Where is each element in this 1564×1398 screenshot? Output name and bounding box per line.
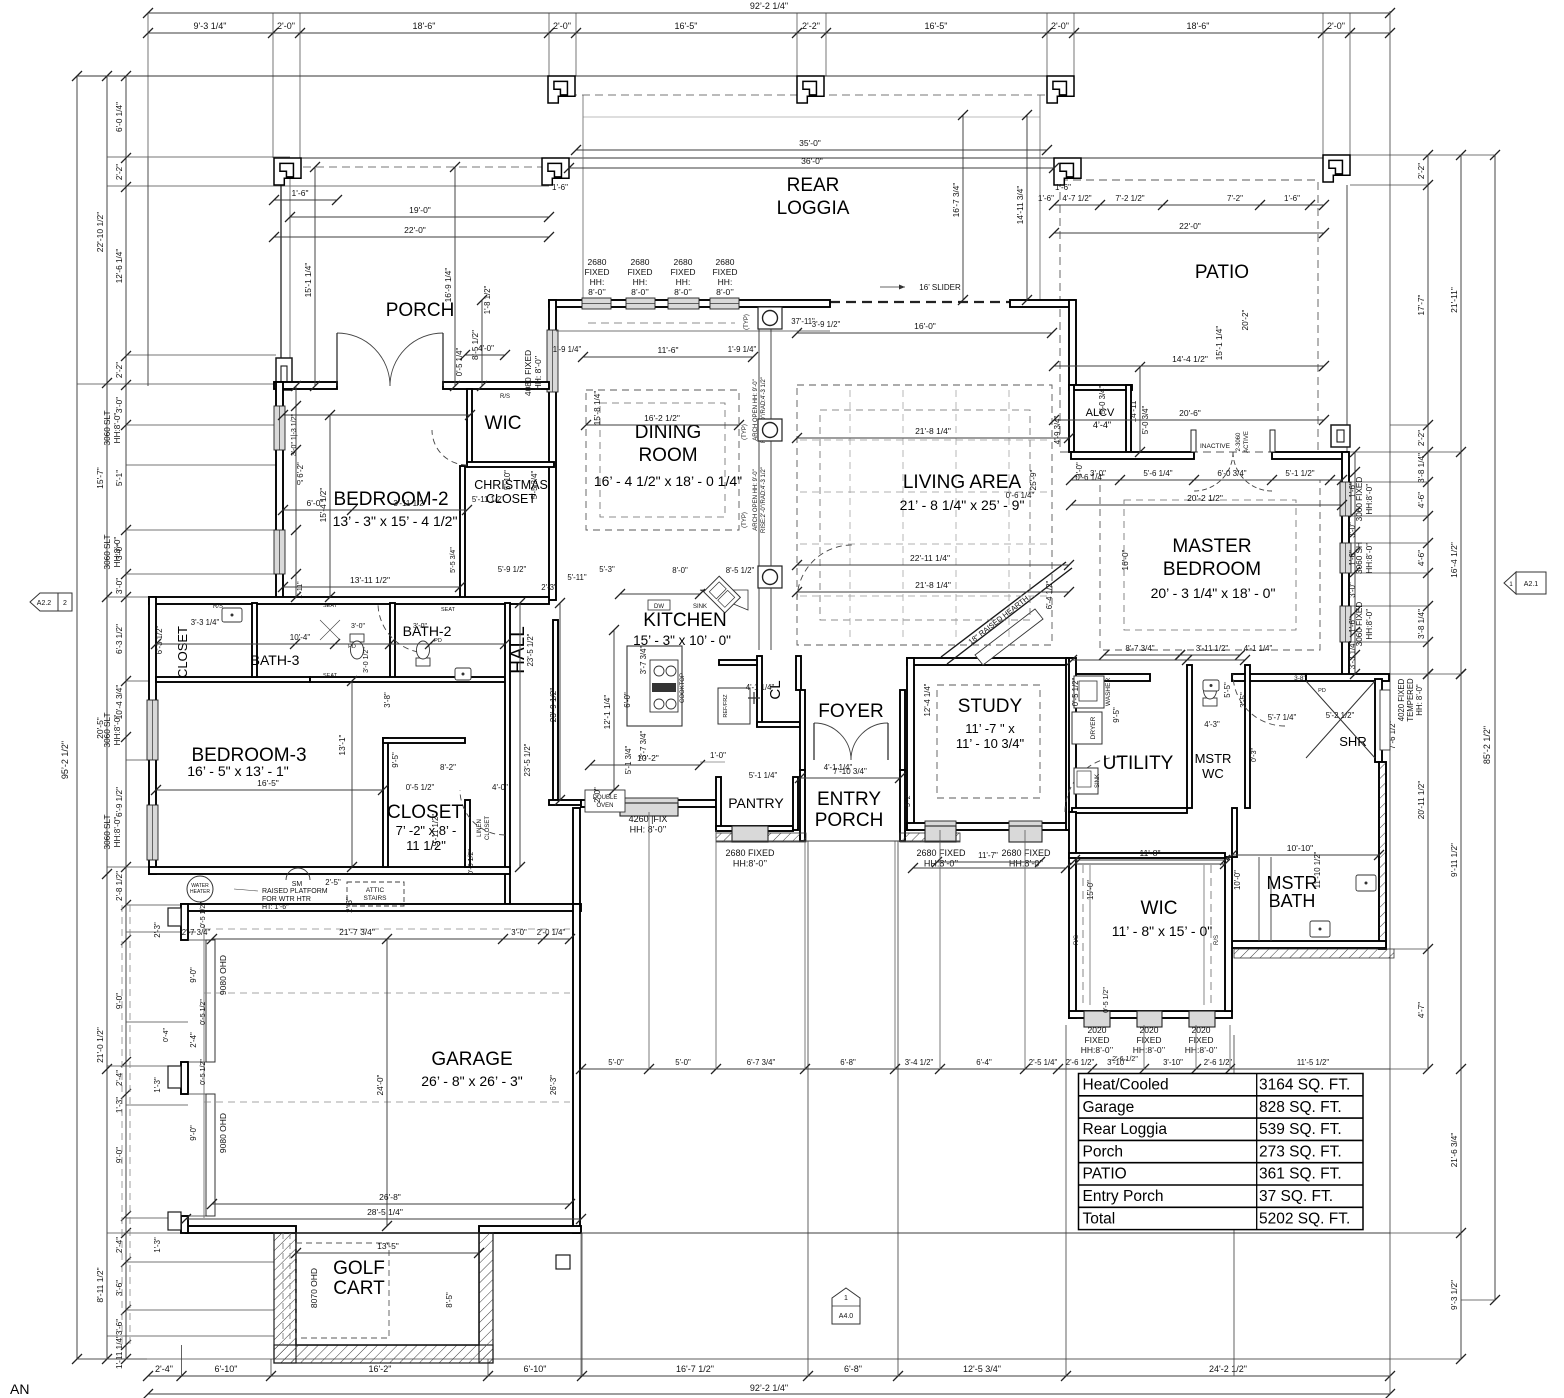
svg-text:16'-5": 16'-5" [257,778,279,788]
svg-text:HH:8’-0’’: HH:8’-0’’ [733,859,767,869]
svg-text:PD: PD [348,644,356,650]
svg-text:HH:8’-0’’: HH:8’-0’’ [1133,1045,1166,1055]
svg-text:WIC: WIC [1141,898,1178,919]
svg-text:5'-1 1/2": 5'-1 1/2" [1285,469,1314,478]
svg-text:2'-0": 2'-0" [1051,21,1069,31]
svg-text:SEAT: SEAT [323,603,338,609]
svg-text:21'-8 1/4": 21'-8 1/4" [915,426,951,436]
svg-text:4020 FIXED: 4020 FIXED [1397,678,1406,721]
svg-text:26'-3": 26'-3" [549,1075,558,1095]
svg-text:20’ - 3 1/4" x 18’ - 0": 20’ - 3 1/4" x 18’ - 0" [1151,585,1276,601]
svg-text:BATH: BATH [1269,891,1316,911]
svg-text:2'-0": 2'-0" [277,21,295,31]
svg-text:HH: 8’-0": HH: 8’-0" [1415,684,1424,716]
svg-text:23'-5 1/2": 23'-5 1/2" [523,743,532,776]
svg-text:2'-8 1/2": 2'-8 1/2" [115,871,124,901]
svg-text:7’ -2" x 8’ -: 7’ -2" x 8’ - [396,823,457,838]
svg-text:2'-3": 2'-3" [345,897,354,913]
svg-text:8’-0’’: 8’-0’’ [588,287,606,297]
svg-text:WASHER: WASHER [1105,678,1112,707]
svg-text:5'-0 3/4": 5'-0 3/4" [1141,406,1150,435]
svg-text:4'-7 1/2": 4'-7 1/2" [1062,194,1091,203]
svg-text:18'-6": 18'-6" [413,21,436,31]
svg-text:OVEN: OVEN [596,803,613,809]
svg-text:3'-8 1/4": 3'-8 1/4" [1417,453,1426,483]
svg-text:COOKTOP: COOKTOP [680,673,686,703]
svg-text:3'-0": 3'-0" [413,623,427,630]
svg-text:539 SQ. FT.: 539 SQ. FT. [1259,1121,1342,1138]
svg-text:15'-1 1/4": 15'-1 1/4" [304,263,313,298]
svg-text:1'-3": 1'-3" [115,1097,124,1113]
svg-text:RAISED PLATFORM: RAISED PLATFORM [262,888,328,895]
svg-text:2'-0": 2'-0" [553,21,571,31]
svg-text:1'-6": 1'-6" [552,183,568,192]
svg-text:CART: CART [333,1278,385,1299]
svg-text:17'-7": 17'-7" [1417,294,1426,315]
svg-text:2'-5 1/4": 2'-5 1/4" [1029,1058,1058,1067]
svg-text:9'-11 1/2": 9'-11 1/2" [1450,843,1459,877]
svg-text:3'-8 1/4": 3'-8 1/4" [1417,609,1426,639]
svg-text:3'-0 1/2": 3'-0 1/2" [363,647,370,673]
svg-text:9'-3 1/2": 9'-3 1/2" [1450,1280,1459,1310]
svg-text:MSTR: MSTR [1267,873,1318,893]
svg-text:LINEN: LINEN [477,819,483,837]
svg-text:PANTRY: PANTRY [728,795,784,811]
svg-text:0'-5 1/2": 0'-5 1/2" [200,999,207,1025]
svg-text:3'-3 1/4": 3'-3 1/4" [191,618,220,627]
svg-text:6'-0": 6'-0" [623,692,632,708]
svg-text:2'-7 3/4": 2'-7 3/4" [182,928,211,937]
svg-text:CLOSET: CLOSET [387,802,463,823]
svg-text:5'-5 3/4": 5'-5 3/4" [530,471,539,500]
svg-text:2'-4": 2'-4" [115,1070,124,1086]
svg-text:92’-2 1/4": 92’-2 1/4" [750,1383,788,1393]
svg-text:16’ - 5" x 13’ - 1": 16’ - 5" x 13’ - 1" [187,763,289,779]
svg-text:FIXED: FIXED [584,267,609,277]
svg-text:5'-10": 5'-10" [503,470,512,490]
svg-text:1'-6": 1'-6" [292,188,309,198]
svg-text:13'-5": 13'-5" [377,1241,399,1251]
svg-text:361 SQ. FT.: 361 SQ. FT. [1259,1166,1342,1183]
svg-text:2'-0": 2'-0" [593,787,602,803]
svg-text:0": 0" [297,480,304,487]
svg-text:2020: 2020 [1140,1025,1159,1035]
svg-text:A2.2: A2.2 [37,600,52,607]
svg-text:3164 SQ. FT.: 3164 SQ. FT. [1259,1077,1350,1094]
svg-text:ATTIC: ATTIC [366,887,385,894]
svg-text:2'-2": 2'-2" [115,362,124,378]
svg-text:BEDROOM-2: BEDROOM-2 [333,489,448,510]
svg-text:PATIO: PATIO [1195,262,1249,283]
svg-text:1'-3": 1'-3" [153,1077,162,1093]
svg-text:HEATER: HEATER [190,889,210,895]
svg-text:10'-0": 10'-0" [1233,870,1242,890]
svg-text:HH:: HH: [633,277,648,287]
svg-text:10'-10": 10'-10" [1287,843,1313,853]
svg-text:13'-1": 13'-1" [338,734,347,755]
svg-text:3060 SLT: 3060 SLT [103,535,112,570]
svg-text:(TYP): (TYP) [742,512,748,528]
svg-text:HH:8’-0’’: HH:8’-0’’ [1185,1045,1218,1055]
svg-text:HH:8’-0": HH:8’-0" [113,817,122,848]
svg-text:FIXED: FIXED [1188,1035,1213,1045]
svg-text:5'-1": 5'-1" [115,470,124,486]
svg-text:0'-6 1/4": 0'-6 1/4" [1006,491,1035,500]
svg-text:REAR: REAR [787,175,840,196]
svg-text:HH: 8’-0’’: HH: 8’-0’’ [630,825,667,835]
svg-text:8'-5": 8'-5" [445,1292,454,1308]
svg-text:10'-4": 10'-4" [290,633,311,642]
svg-text:5'-3": 5'-3" [599,565,615,574]
svg-text:2: 2 [63,600,67,607]
svg-text:1'-8 1/2": 1'-8 1/2" [483,286,492,315]
svg-text:9'-0": 9'-0" [115,993,124,1009]
svg-text:4080 FIXED: 4080 FIXED [523,350,533,396]
svg-text:9'-5": 9'-5" [1112,707,1121,723]
svg-text:20'-2": 20'-2" [1241,309,1250,330]
svg-text:6'-3 1/2": 6'-3 1/2" [115,624,124,654]
svg-text:9'-0": 9'-0" [115,1147,124,1163]
svg-text:15'-1 1/4": 15'-1 1/4" [1215,326,1224,361]
svg-text:FIXED: FIXED [1136,1035,1161,1045]
svg-text:1'-11": 1'-11" [297,581,304,599]
svg-text:3'-9 1/2": 3'-9 1/2" [812,320,841,329]
svg-text:8’-0’’: 8’-0’’ [674,287,692,297]
svg-text:85’-2 1/2": 85’-2 1/2" [1482,726,1492,764]
svg-text:AN: AN [10,1381,29,1397]
svg-text:R/S: R/S [500,394,510,400]
svg-text:15'-0": 15'-0" [1086,880,1095,900]
svg-text:2680: 2680 [674,257,693,267]
svg-text:HH:8’-0’’: HH:8’-0’’ [1365,608,1374,639]
svg-text:3'-0": 3'-0" [115,578,124,594]
svg-text:2680: 2680 [588,257,607,267]
svg-text:FIXED: FIXED [627,267,652,277]
svg-text:5'-6 1/4": 5'-6 1/4" [1143,469,1172,478]
svg-text:22'-10 1/2": 22'-10 1/2" [95,212,105,253]
svg-text:2680: 2680 [716,257,735,267]
svg-text:8'-11 1/2": 8'-11 1/2" [95,1267,105,1302]
svg-text:Garage: Garage [1083,1099,1135,1116]
svg-text:1'-6": 1'-6" [1348,617,1357,633]
svg-text:21'-7 3/4": 21'-7 3/4" [339,927,375,937]
svg-text:4'-3": 4'-3" [1204,720,1220,729]
svg-text:5'-2 1/2": 5'-2 1/2" [1326,711,1355,720]
svg-text:4’-4": 4’-4" [1093,420,1111,430]
svg-text:R/S: R/S [1214,935,1220,945]
svg-text:37 SQ. FT.: 37 SQ. FT. [1259,1188,1333,1205]
svg-text:25'-9": 25'-9" [1029,469,1038,490]
svg-text:21'-11": 21'-11" [1449,287,1459,313]
svg-text:Total: Total [1083,1210,1116,1227]
svg-text:8070 OHD: 8070 OHD [309,1268,319,1308]
svg-text:12'-4 1/4": 12'-4 1/4" [923,683,932,716]
svg-text:2'-0": 2'-0" [1327,21,1345,31]
svg-text:12'-1 1/4": 12'-1 1/4" [603,695,612,730]
svg-text:5'-11 1/2": 5'-11 1/2" [472,495,505,504]
svg-text:37'-11": 37'-11" [791,317,815,326]
svg-text:4'-0": 4'-0" [478,344,494,353]
svg-text:4'-6": 4'-6" [1417,550,1426,566]
svg-text:24'-2 1/2": 24'-2 1/2" [1209,1364,1247,1374]
svg-text:3'-6": 3'-6" [115,1319,124,1335]
svg-text:16’ - 4 1/2" x 18’ - 0 1/4": 16’ - 4 1/2" x 18’ - 0 1/4" [594,473,742,489]
svg-text:28'-5 1/4": 28'-5 1/4" [367,1207,403,1217]
svg-text:2'-3": 2'-3" [153,922,162,938]
svg-text:11'-8": 11'-8" [1139,848,1160,858]
svg-text:LIVING AREA: LIVING AREA [903,472,1022,493]
svg-text:15'-4 1/2": 15'-4 1/2" [319,488,328,523]
svg-text:15'-8 1/4": 15'-8 1/4" [593,391,602,426]
svg-text:0'-5 1/2": 0'-5 1/2" [406,783,435,792]
svg-text:7'-2 1/2": 7'-2 1/2" [1115,194,1144,203]
svg-text:9080 OHD: 9080 OHD [218,955,228,995]
svg-text:6'-7 3/4": 6'-7 3/4" [747,1058,776,1067]
svg-text:21'-6 3/4": 21'-6 3/4" [1450,1133,1459,1168]
svg-text:BATH-2: BATH-2 [403,623,452,639]
svg-text:1: 1 [844,1295,848,1302]
svg-text:WC: WC [1202,766,1224,781]
svg-text:2'-4": 2'-4" [155,1364,173,1374]
svg-text:2'-4": 2'-4" [115,1237,124,1253]
svg-text:4'-1 1/4": 4'-1 1/4" [1244,644,1273,653]
svg-text:ARCH OPEN HH: 9’-0": ARCH OPEN HH: 9’-0" [753,469,759,530]
svg-text:95’-2 1/2": 95’-2 1/2" [60,741,70,779]
svg-text:16'-2": 16'-2" [369,1364,392,1374]
svg-text:5'-7 1/4": 5'-7 1/4" [1268,713,1297,722]
svg-text:A2.1: A2.1 [1524,581,1539,588]
svg-text:92’-2 1/4": 92’-2 1/4" [750,1,788,11]
svg-text:35'-0": 35'-0" [799,138,821,148]
svg-text:9'-5": 9'-5" [391,752,400,768]
svg-text:4'-9 3/4": 4'-9 3/4" [1053,416,1062,445]
svg-text:3'-10": 3'-10" [1107,1058,1127,1067]
svg-text:8’-0’’: 8’-0’’ [631,287,649,297]
svg-text:7'-2": 7'-2" [1227,194,1243,203]
svg-text:6'-4": 6'-4" [976,1058,992,1067]
svg-text:9'-11 1/2": 9'-11 1/2" [431,814,440,847]
svg-text:FIXED: FIXED [670,267,695,277]
svg-text:(TYP): (TYP) [742,424,748,440]
svg-text:8'-5 1/2": 8'-5 1/2" [726,566,755,575]
svg-text:5'-0 3/4": 5'-0 3/4" [1098,386,1107,415]
svg-text:HH:8’-0’’: HH:8’-0’’ [1081,1045,1114,1055]
svg-text:11'-6": 11'-6" [657,345,678,355]
svg-text:2'-6 1/2": 2'-6 1/2" [1204,1058,1233,1067]
svg-text:2020: 2020 [1088,1025,1107,1035]
svg-text:11 1/2": 11 1/2" [406,838,446,853]
svg-text:PORCH: PORCH [815,810,884,831]
svg-text:10'-4 3/4": 10'-4 3/4" [115,685,124,720]
svg-text:3'-5": 3'-5" [1239,692,1248,708]
svg-text:KITCHEN: KITCHEN [643,610,726,631]
svg-text:5'-11": 5'-11" [567,573,587,582]
svg-text:5'-5 3/4": 5'-5 3/4" [450,547,457,573]
svg-text:2680: 2680 [631,257,650,267]
svg-text:3-8": 3-8" [1294,675,1306,682]
svg-text:4'-0": 4'-0" [492,783,508,792]
svg-text:23'-5 1/2": 23'-5 1/2" [526,633,535,666]
svg-text:5'-2": 5'-2" [905,793,912,807]
svg-text:2680 FIXED: 2680 FIXED [916,848,966,858]
svg-text:Entry Porch: Entry Porch [1083,1188,1164,1205]
svg-text:6'-8": 6'-8" [844,1364,862,1374]
svg-text:R/S: R/S [213,604,223,610]
svg-text:3'-8": 3'-8" [383,692,392,708]
svg-text:1'-6": 1'-6" [1348,550,1357,566]
svg-text:0'-3": 0'-3" [1251,748,1258,762]
svg-text:11’ - 10 3/4": 11’ - 10 3/4" [956,736,1025,751]
svg-text:6'-2": 6'-2" [296,462,305,478]
svg-text:SEAT: SEAT [323,673,338,679]
svg-text:4'-1 1/4": 4'-1 1/4" [746,683,775,692]
svg-text:3'-4 1/2": 3'-4 1/2" [905,1058,934,1067]
svg-text:2'-2": 2'-2" [1417,163,1426,179]
svg-text:10'-2": 10'-2" [637,753,659,763]
svg-text:36'-0": 36'-0" [801,156,823,166]
svg-text:3'-11 1/2": 3'-11 1/2" [393,499,426,508]
svg-text:3'-0": 3'-0" [1075,462,1084,478]
svg-text:3060 SLT: 3060 SLT [103,713,112,748]
svg-text:3'-0": 3'-0" [1348,522,1357,538]
svg-text:2'-2": 2'-2" [115,164,124,180]
svg-text:24'-0": 24'-0" [376,1074,385,1095]
svg-text:16'-0": 16'-0" [1121,549,1130,570]
svg-text:26'-8": 26'-8" [379,1192,401,1202]
svg-text:BEDROOM: BEDROOM [1163,559,1261,580]
svg-text:ENTRY: ENTRY [817,789,881,810]
svg-text:HH:: HH: [590,277,605,287]
svg-text:26’ - 8" x 26’ - 3": 26’ - 8" x 26’ - 3" [421,1073,523,1089]
svg-text:7'-10 3/4": 7'-10 3/4" [833,767,867,776]
svg-text:4'-6": 4'-6" [1417,492,1426,508]
svg-text:GOLF: GOLF [333,1258,385,1279]
svg-text:CLOSET: CLOSET [485,816,491,840]
svg-text:3'-6": 3'-6" [115,1280,124,1296]
svg-text:UTILITY: UTILITY [1103,753,1174,774]
svg-text:14'-4 1/2": 14'-4 1/2" [1172,354,1208,364]
svg-text:6'-9 1/2": 6'-9 1/2" [115,787,124,817]
svg-text:SM: SM [292,881,303,888]
svg-text:5'-1 3/4": 5'-1 3/4" [624,746,633,775]
svg-text:2-3060: 2-3060 [1236,432,1242,451]
svg-text:6'-10": 6'-10" [524,1364,547,1374]
svg-text:HH: 8’-0’’: HH: 8’-0’’ [533,355,543,390]
svg-text:8'-7 3/4": 8'-7 3/4" [1125,644,1154,653]
svg-text:FIXED: FIXED [1084,1035,1109,1045]
svg-text:INACTIVE: INACTIVE [1200,443,1231,450]
svg-text:3'-10": 3'-10" [1163,1058,1183,1067]
svg-text:18'-6": 18'-6" [1187,21,1210,31]
svg-text:STAIRS: STAIRS [364,895,388,902]
svg-text:3060 SLT: 3060 SLT [103,815,112,850]
svg-text:4260 |FIX: 4260 |FIX [629,814,668,824]
svg-text:1'-0": 1'-0" [710,751,726,760]
svg-text:6'-10": 6'-10" [215,1364,238,1374]
svg-text:MASTER: MASTER [1172,536,1251,557]
svg-text:3'-0": 3'-0" [115,397,124,413]
svg-text:1'-9 1/4": 1'-9 1/4" [728,345,757,354]
svg-text:SEAT: SEAT [441,607,456,613]
svg-text:FIXED: FIXED [712,267,737,277]
svg-text:3'-0": 3'-0" [511,928,527,937]
svg-text:3'-7 3/4": 3'-7 3/4" [639,646,648,675]
svg-text:1'-6": 1'-6" [1284,194,1300,203]
svg-text:16'-5": 16'-5" [925,21,948,31]
svg-text:11'-7": 11'-7" [978,851,998,860]
svg-text:3'-0": 3'-0" [1090,469,1106,478]
svg-text:REF/FRZ: REF/FRZ [723,694,729,718]
svg-text:BATH-3: BATH-3 [251,652,300,668]
svg-text:12'-6 1/4": 12'-6 1/4" [115,249,124,284]
svg-text:3'-0": 3'-0" [1348,582,1357,598]
svg-text:9'-3 1/4": 9'-3 1/4" [194,21,227,31]
svg-text:4'-7": 4'-7" [1417,1002,1426,1018]
svg-text:6'-0 3/4": 6'-0 3/4" [1217,469,1246,478]
svg-text:3'-11 1/2": 3'-11 1/2" [1196,644,1229,653]
svg-text:Rear Loggia: Rear Loggia [1083,1121,1168,1138]
svg-text:5202 SQ. FT.: 5202 SQ. FT. [1259,1210,1350,1227]
svg-text:6'-8": 6'-8" [840,1058,856,1067]
svg-text:3060 SLT: 3060 SLT [103,411,112,446]
svg-text:21'-0 1/2": 21'-0 1/2" [95,1027,105,1063]
svg-text:22'-0": 22'-0" [404,225,426,235]
svg-text:PATIO: PATIO [1083,1166,1127,1183]
svg-text:HT: 1’-6": HT: 1’-6" [262,904,289,911]
svg-text:2'-5": 2'-5" [325,878,341,887]
svg-text:8'-0": 8'-0" [672,566,688,575]
svg-text:9080 OHD: 9080 OHD [218,1113,228,1153]
svg-text:2'-4": 2'-4" [189,1032,198,1048]
svg-text:22'-11 1/4": 22'-11 1/4" [910,553,950,563]
svg-text:2'-6 1/2": 2'-6 1/2" [1066,1058,1095,1067]
svg-text:22'-0": 22'-0" [1179,221,1201,231]
svg-text:3'-0": 3'-0" [351,623,365,630]
svg-text:15'-7": 15'-7" [95,467,105,489]
svg-text:LOGGIA: LOGGIA [777,198,850,219]
svg-text:16'-0": 16'-0" [914,321,936,331]
svg-text:16'-7 1/2": 16'-7 1/2" [676,1364,714,1374]
svg-text:0'-5 1/2": 0'-5 1/2" [200,1059,207,1085]
svg-text:1'-6": 1'-6" [1038,194,1054,203]
svg-text:6'-4 1/2": 6'-4 1/2" [1045,581,1054,610]
svg-text:SINK: SINK [1095,774,1101,788]
svg-text:STUDY: STUDY [958,696,1023,717]
svg-text:PD: PD [1318,688,1326,694]
svg-text:CLOSET: CLOSET [175,626,190,678]
svg-text:1'-3": 1'-3" [153,1237,162,1253]
svg-text:A4.0: A4.0 [839,1313,854,1320]
svg-text:1'-6": 1'-6" [1348,482,1357,498]
svg-text:8’-0’’: 8’-0’’ [716,287,734,297]
svg-text:2680 FIXED: 2680 FIXED [725,848,775,858]
svg-text:HH:8’-0’’: HH:8’-0’’ [1365,542,1374,573]
svg-text:HH:8’-0": HH:8’-0" [113,413,122,444]
svg-text:0'-5 1/4": 0'-5 1/4" [455,348,464,377]
svg-text:9'-0": 9'-0" [189,1125,198,1141]
svg-text:FOYER: FOYER [818,701,883,722]
svg-text:HH:8’-0’’: HH:8’-0’’ [924,859,958,869]
svg-text:273 SQ. FT.: 273 SQ. FT. [1259,1143,1342,1160]
svg-text:16'-9 1/4": 16'-9 1/4" [444,268,453,303]
svg-text:13’ - 3" x 15’ - 4 1/2": 13’ - 3" x 15’ - 4 1/2" [333,513,458,529]
svg-text:6'-0 1/4": 6'-0 1/4" [115,102,124,132]
svg-text:11’ - 8" x 15’ - 0": 11’ - 8" x 15’ - 0" [1112,923,1212,939]
svg-text:GARAGE: GARAGE [431,1049,512,1070]
svg-text:HH:8’-0": HH:8’-0" [113,715,122,746]
svg-text:HH:: HH: [676,277,691,287]
svg-text:14'-11": 14'-11" [1129,398,1138,423]
